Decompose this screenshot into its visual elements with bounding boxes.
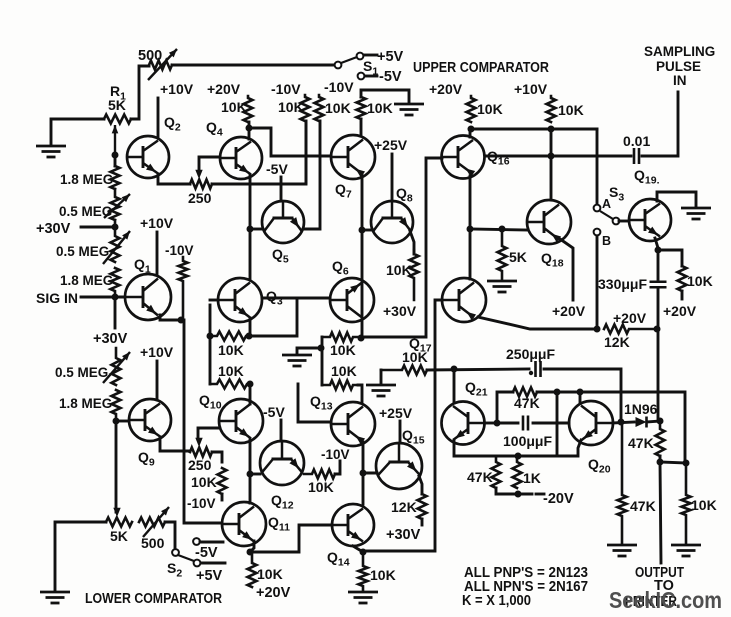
wire snub to cap250 (427, 369, 529, 370)
wire +30V feed (81, 226, 115, 229)
switch S3 contact B (594, 229, 601, 236)
wire S1 -5V (365, 75, 377, 78)
capacitor 330uuF (650, 282, 667, 288)
wire chain to +30V lower (114, 297, 117, 328)
diode 1N96 (636, 417, 647, 428)
node L2 right (247, 381, 254, 388)
wire Q3 to Q6 base (262, 297, 330, 300)
resistor 10K Q18 (547, 96, 556, 122)
resistor 10K Q19 (678, 266, 687, 291)
ground near S1 (394, 104, 424, 115)
svg-text:500: 500 (141, 535, 165, 551)
svg-text:10K: 10K (218, 342, 244, 358)
svg-text:-20V: -20V (543, 491, 574, 507)
wire Q15 emitter (419, 476, 422, 494)
svg-text:47K: 47K (467, 469, 493, 485)
svg-text:5K: 5K (110, 528, 128, 544)
svg-text:-5V: -5V (379, 69, 402, 85)
resistor 10K -10V a (301, 95, 310, 121)
transistor Q4 (220, 137, 262, 179)
svg-text:10K: 10K (370, 567, 396, 583)
wire B contact to 12K row (596, 236, 599, 329)
svg-text:0.01: 0.01 (623, 133, 650, 149)
node hold (655, 247, 662, 254)
transistor Q8 (371, 201, 413, 243)
node mid ground tap (318, 345, 325, 352)
wire -20V rail (496, 488, 532, 494)
resistor 10K out (682, 463, 691, 543)
wire 10K to -10V (221, 494, 224, 500)
svg-text:250: 250 (188, 457, 212, 473)
svg-text:SeekIC.com: SeekIC.com (609, 587, 722, 613)
node 12K hold join (654, 326, 661, 333)
node fb drop1 (554, 389, 561, 396)
node 5K tap (499, 226, 506, 233)
pot arrow 0.5MEG b (103, 231, 130, 264)
svg-text:-10V: -10V (321, 447, 350, 462)
wire fb riser (497, 392, 513, 423)
wire cap to Q20 (533, 422, 569, 425)
wire +10V to Q1 (156, 232, 159, 275)
resistor 10K Q11 (248, 552, 257, 587)
transistor Q13 (331, 402, 375, 446)
wire +25V to Q8 (391, 154, 394, 201)
node +30V tap (112, 224, 119, 231)
svg-text:10K: 10K (308, 479, 334, 495)
transistor Q20 (569, 401, 613, 445)
svg-text:+10V: +10V (140, 215, 174, 231)
wiper arrow R1 (114, 125, 116, 153)
resistor 10K pair R1 (322, 333, 361, 342)
svg-text:10K: 10K (386, 262, 412, 278)
resistor 0.5MEG b (111, 220, 120, 262)
svg-text:1.8 MEG: 1.8 MEG (60, 172, 113, 187)
wire 10K to +20V (681, 291, 684, 299)
svg-text:+30V: +30V (383, 303, 417, 319)
resistor 10K Q7 grounded (357, 97, 366, 119)
pot arrow 0.5MEG c (103, 352, 130, 383)
svg-text:5K: 5K (509, 249, 527, 265)
wire Q20 collector (613, 422, 634, 423)
svg-text:10K: 10K (278, 99, 304, 115)
wire -5V to Q12 (280, 420, 283, 441)
wire output line (660, 462, 661, 563)
node Q2 base (112, 152, 119, 159)
wire Q4 collector lead (248, 122, 251, 139)
svg-text:10K: 10K (191, 474, 217, 490)
node output (657, 459, 664, 466)
svg-text:+10V: +10V (514, 81, 548, 97)
wire collector rail (471, 128, 597, 131)
resistor 5K Q18 (498, 229, 507, 279)
wire snub ground (380, 370, 383, 383)
wire Q8 emitter (410, 231, 414, 254)
resistor 0.5MEG c (112, 348, 121, 385)
svg-text:10K: 10K (687, 273, 713, 289)
wire Q13 base (298, 384, 331, 422)
wire Q3 left leg (209, 305, 212, 336)
wire Q17 collector (469, 229, 472, 279)
trimmer arrow 500 lower (143, 507, 169, 537)
wire Q16em to Q18 base (470, 229, 528, 230)
wire hold line upper (657, 250, 660, 279)
wire Q4col to Q7 base (249, 128, 331, 156)
wire +25V to Q15 (399, 421, 402, 443)
resistor 12K (604, 325, 656, 334)
svg-text:SAMPLING: SAMPLING (644, 44, 715, 59)
transistor Q12 (260, 441, 304, 485)
svg-text:+10V: +10V (140, 344, 174, 360)
transistor Q18 (527, 200, 571, 244)
resistor 10K pair R2 (322, 381, 358, 390)
ground input (36, 146, 66, 157)
wire -10V b to Q5 (304, 121, 320, 229)
resistor 10K Q1 -10V (179, 257, 188, 320)
svg-text:+5V: +5V (377, 49, 404, 65)
svg-text:SIG IN: SIG IN (36, 290, 78, 306)
wire Q19 emitter (655, 238, 658, 248)
wire R1 wiper chain (114, 155, 117, 166)
svg-text:10K: 10K (325, 100, 351, 116)
wire +10V to Q9 (156, 361, 159, 399)
resistor 10K -10V lower (218, 468, 227, 494)
wire hold to 10K (658, 250, 682, 266)
ground Q19 (681, 208, 711, 219)
wire drop1 (556, 392, 559, 456)
svg-text:500: 500 (138, 48, 162, 64)
wire Q2 emitter (158, 174, 190, 184)
node upper summing (359, 227, 366, 234)
svg-text:B: B (602, 234, 611, 248)
wire Q21 right (485, 422, 497, 425)
wire Q17 emitter diagonal (478, 317, 594, 329)
transistor Q17 (442, 278, 486, 322)
wire output rail (660, 456, 686, 463)
ground snub (366, 385, 396, 396)
svg-text:+20V: +20V (663, 303, 697, 319)
ground Q14 (348, 592, 378, 603)
switch S3 contact A (594, 205, 601, 212)
svg-text:1N96: 1N96 (624, 401, 658, 417)
capacitor 250uuF (536, 361, 541, 377)
svg-text:+10V: +10V (160, 81, 194, 97)
wire 250 to 10K (212, 452, 222, 462)
wire hold line lower (657, 290, 660, 421)
resistor 10K pair L1 (210, 332, 249, 341)
wire Q3 base (210, 299, 218, 302)
wire diode to hold (647, 421, 660, 422)
wire Q3 right leg (249, 318, 252, 336)
wire Q17 base (363, 300, 442, 551)
wire to Q12 base (250, 473, 260, 476)
switch S1 throw -5V (358, 73, 365, 80)
resistor 10K Q4 (244, 96, 253, 122)
node L1 right (246, 333, 253, 340)
switch S3 arm (600, 211, 613, 219)
transistor Q14 (332, 504, 374, 546)
node fb (494, 420, 501, 427)
node Q14 collector (360, 470, 367, 477)
wire chain to 5K arrow (115, 421, 118, 512)
wire -20V dash (536, 493, 544, 496)
transistor Q6 (330, 278, 374, 322)
wire 10K to -10V b (335, 461, 340, 474)
svg-text:+20V: +20V (613, 310, 647, 326)
wire 500 to S1 (172, 64, 334, 67)
resistor 10K snub (381, 366, 427, 375)
capacitor 100uuF (523, 416, 528, 431)
ground lower left (40, 592, 70, 603)
svg-text:+30V: +30V (386, 527, 421, 543)
wire cap250 to Q20col (544, 369, 621, 422)
wire +10V to Q2 (157, 98, 160, 137)
resistor 250 pot lower (190, 448, 212, 457)
resistor 10K pair L2 (210, 380, 250, 389)
switch S2 throw +5V (194, 560, 201, 567)
svg-text:10K: 10K (257, 566, 283, 582)
ground 10K out (671, 545, 701, 556)
resistor 47K fb (513, 388, 537, 397)
arrow Q10 base onto pot (195, 438, 202, 447)
svg-text:+25V: +25V (374, 137, 408, 153)
node Q20 collector (618, 419, 625, 426)
transistor Q3 (218, 278, 262, 322)
node SIG IN (112, 294, 119, 301)
node -20V rail (515, 491, 522, 498)
wire fb cap wire (497, 422, 518, 425)
wire Q21 emitter rail (454, 441, 577, 456)
wire S2 +5V (201, 562, 225, 565)
resistor 12K Q15 (418, 494, 427, 519)
svg-text:250μμF: 250μμF (506, 346, 555, 362)
svg-text:47K: 47K (630, 498, 656, 514)
wire Q18 collector (550, 129, 553, 200)
svg-text:+25V: +25V (379, 405, 413, 421)
node L1 left (207, 333, 214, 340)
wire Q4 emitter (249, 175, 252, 229)
wire Q6 through vertical (361, 230, 364, 338)
wire -10V a to 250 wire (305, 121, 308, 183)
wire ground to R1 (51, 119, 104, 144)
switch S2 pole (172, 549, 179, 556)
svg-text:1.8 MEG: 1.8 MEG (59, 396, 112, 411)
wire Q1 emitter to Q11 base (184, 320, 222, 523)
resistor 1.8MEG c (112, 390, 121, 421)
transistor Q1 (125, 274, 171, 320)
svg-text:+30V: +30V (36, 221, 71, 237)
svg-text:10K: 10K (691, 497, 717, 513)
svg-text:47K: 47K (514, 395, 540, 411)
svg-text:+20V: +20V (552, 303, 586, 319)
svg-text:10K: 10K (558, 102, 584, 118)
node Q12 base (247, 471, 254, 478)
svg-text:-10V: -10V (187, 496, 216, 511)
svg-text:-5V: -5V (195, 545, 218, 561)
wire Q4 base (199, 157, 220, 171)
resistor 10K Q16 (467, 96, 476, 122)
svg-text:+20V: +20V (256, 585, 291, 601)
svg-text:+5V: +5V (196, 568, 223, 584)
svg-text:1.8 MEG: 1.8 MEG (60, 273, 113, 288)
resistor 1.8MEG upper (111, 166, 120, 189)
wire Q10 emitter (249, 440, 252, 503)
wire R1 to 500 pot (131, 66, 149, 119)
svg-text:+30V: +30V (93, 331, 128, 347)
node Q4 collector (246, 125, 253, 132)
node upper summing lower (358, 335, 365, 342)
svg-text:47K: 47K (628, 435, 654, 451)
svg-text:250: 250 (188, 190, 212, 206)
svg-text:IN: IN (673, 73, 687, 88)
wire Q16 collector lead (469, 129, 472, 137)
svg-text:-10V: -10V (165, 243, 194, 258)
node Q11 emitter (247, 549, 254, 556)
transistor Q19 (629, 199, 671, 241)
wire A contact riser (596, 129, 599, 204)
ink speck at 250uuF (529, 371, 533, 375)
wire Q10 base (198, 428, 219, 439)
svg-text:UPPER COMPARATOR: UPPER COMPARATOR (413, 60, 549, 76)
wire Q9 emitter (160, 437, 190, 451)
svg-text:1K: 1K (523, 470, 541, 486)
svg-text:LOWER COMPARATOR: LOWER COMPARATOR (85, 591, 222, 607)
transistor Q2 (127, 136, 169, 178)
transistor Q5 (262, 201, 304, 243)
wire S1 +5V (364, 54, 377, 57)
wire 500 to S2 (165, 522, 175, 549)
resistor 10K -10V b (315, 95, 324, 121)
pot arrow 0.5MEG a (104, 194, 130, 218)
wire R2 to Q13 (358, 385, 362, 402)
transistor Q16 (442, 136, 485, 179)
resistor 1.8MEG lower (111, 268, 120, 297)
wire L1 right to riser (249, 298, 297, 336)
svg-text:10K: 10K (330, 342, 356, 358)
wire Q18 emitter (560, 239, 573, 300)
wire Q7 emitter to node (361, 175, 364, 230)
svg-text:12K: 12K (604, 334, 630, 350)
svg-text:K = X 1,000: K = X 1,000 (462, 593, 531, 609)
ground 5K (487, 281, 517, 292)
wire pair L left (209, 336, 212, 384)
svg-text:+20V: +20V (429, 81, 463, 97)
wire fb to right (537, 392, 685, 463)
svg-text:5K: 5K (108, 97, 126, 113)
switch S1 pole (335, 62, 342, 69)
resistor 5K pot (106, 518, 132, 527)
resistor 500 trimmer (149, 61, 172, 70)
svg-text:10K: 10K (477, 101, 503, 117)
wire Q4em to Q3 (249, 229, 252, 278)
resistor 10K Q12 (304, 470, 335, 479)
switch S1 throw +5V (357, 53, 364, 60)
svg-text:10K: 10K (402, 349, 428, 365)
svg-text:+20V: +20V (207, 81, 241, 97)
node +10V 10K join (548, 126, 555, 133)
transistor Q11 (222, 502, 266, 546)
transistor Q7 (331, 135, 375, 179)
wire pair R left (321, 337, 324, 385)
node Q14 emitter (360, 549, 367, 556)
svg-text:-10V: -10V (324, 79, 354, 95)
svg-text:0.5 MEG: 0.5 MEG (56, 244, 109, 259)
wire S3 pole to Q19 (619, 220, 629, 223)
transistor Q21 (442, 402, 485, 445)
svg-text:10K: 10K (331, 363, 357, 379)
node Q16 collector (468, 126, 475, 133)
wire Q8 base (362, 229, 371, 232)
switch S1 arm (341, 57, 357, 63)
transistor Q10 (219, 399, 263, 443)
wire cap to sampling (642, 92, 678, 156)
wire 12K lead (421, 519, 424, 525)
transistor Q9 (129, 399, 171, 441)
wire Q16 to cap (485, 155, 631, 158)
resistor 10K Q8 (410, 250, 419, 300)
node Q21 top (451, 366, 458, 373)
wire Q20 base (579, 392, 582, 403)
resistor 47K Q20col (618, 422, 627, 543)
wire 250 to -10V resistor (212, 121, 306, 184)
wire Q20 emitter (578, 440, 581, 456)
svg-text:12K: 12K (391, 499, 417, 515)
wire -5V to Q5 (280, 177, 283, 201)
resistor 47K hold (656, 421, 665, 456)
resistor 47K emitter (492, 456, 501, 488)
node 10K out top (683, 460, 690, 467)
trimmer arrow 500 (148, 49, 177, 80)
wire Q19 collector to ground (657, 192, 696, 206)
wire Q21 top lead (453, 369, 456, 403)
wire Q11em to Q14 base (250, 525, 332, 552)
wire Q7 res to ground (361, 90, 409, 102)
svg-text:0.5 MEG: 0.5 MEG (55, 365, 108, 380)
wire Q7 collector (360, 119, 363, 136)
node diode out (657, 418, 664, 425)
wire Q16 emitter (469, 176, 472, 229)
node Q4-Q5 junction (247, 226, 254, 233)
svg-text:-5V: -5V (263, 404, 285, 420)
wire ground to 5K (55, 522, 106, 590)
ground middle (282, 355, 312, 366)
node 1K top (515, 453, 522, 460)
node Q16-Q17 (467, 226, 474, 233)
node Q20 base (577, 389, 584, 396)
wire Q9 base (116, 420, 129, 423)
svg-text:-10V: -10V (271, 81, 301, 97)
node Q9 base (113, 418, 120, 425)
wire Q10 collector (249, 384, 252, 404)
svg-text:PULSE: PULSE (656, 59, 701, 74)
wire Q14col to Q15 base (363, 472, 377, 475)
resistor 10K Q14 (359, 552, 368, 591)
switch S2 arm (178, 555, 194, 561)
switch S2 throw -5V (193, 538, 200, 545)
resistor 500 lower (139, 518, 165, 527)
svg-text:0.5 MEG: 0.5 MEG (59, 204, 112, 219)
arrow onto 5K (113, 508, 120, 517)
wire Q1 emitter (160, 315, 181, 320)
resistor 1K (513, 456, 522, 488)
wire Q5 link (250, 228, 262, 231)
resistor 250 pot upper (190, 180, 212, 189)
arrow Q4 base to pot (195, 170, 202, 179)
node B riser join (594, 326, 601, 333)
wire Q11 emitter (250, 541, 254, 552)
node Q1 emitter junction (178, 317, 185, 324)
svg-text:10K: 10K (218, 363, 244, 379)
svg-text:100μμF: 100μμF (503, 433, 552, 449)
